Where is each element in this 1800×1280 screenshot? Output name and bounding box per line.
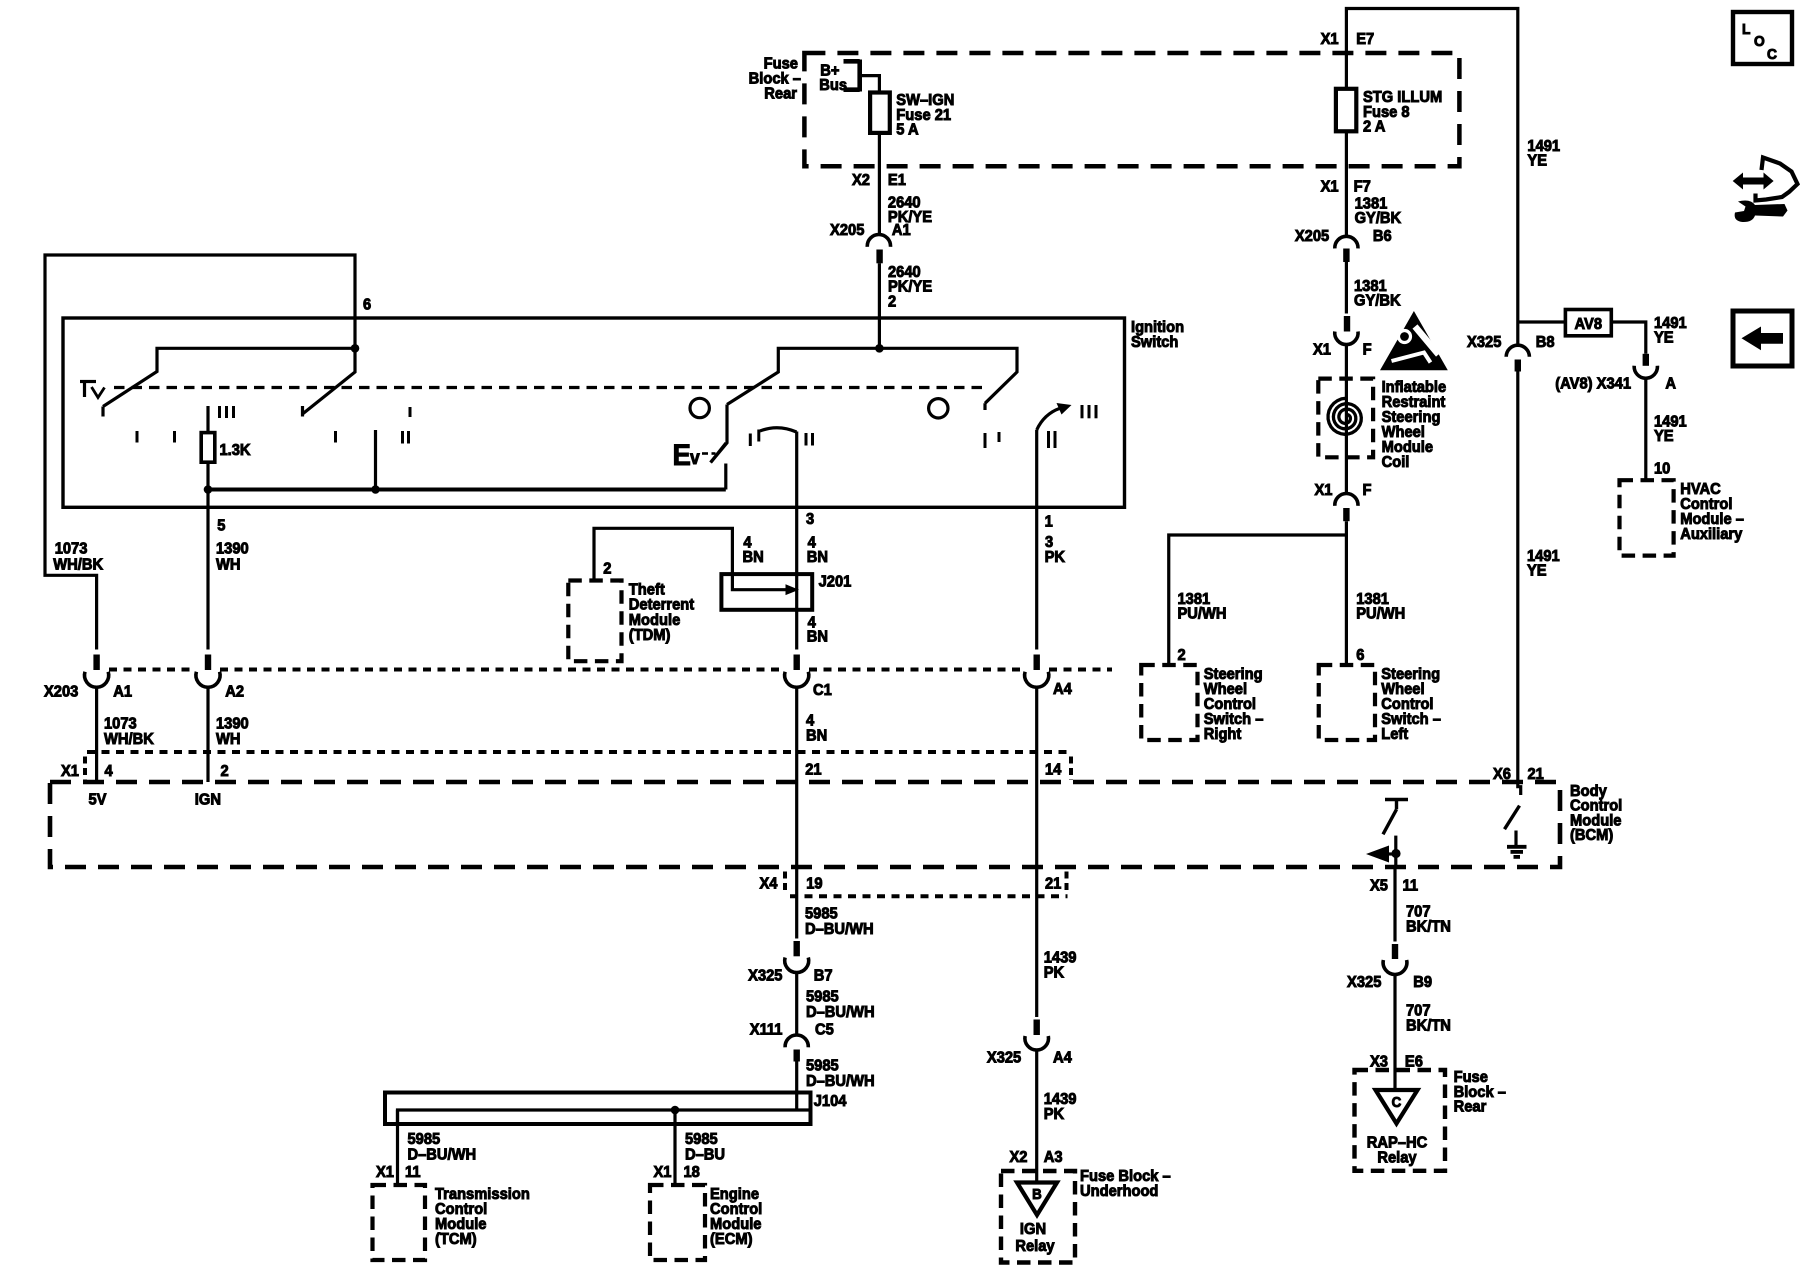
switch pole 3 (ignition feed) [711,348,1017,462]
wire branch to right switch [1169,535,1347,665]
svg-text:IGN: IGN [1020,1220,1046,1238]
label 2640 PK/YE A1 [888,194,932,239]
svg-text:2: 2 [1177,646,1185,664]
label Theft Deterrent Module (TDM) [629,581,694,645]
wire branch to AV8 [1518,320,1566,323]
label SW-IGN Fuse 21 5A [896,91,954,138]
svg-text:v: v [690,446,701,468]
fuse SW-IGN Fuse 21 5A [870,93,890,133]
wire X205 B6 to X1 F [1345,262,1348,314]
Fuse Block - Rear box (top) [804,53,1459,166]
svg-text:L: L [1742,22,1751,39]
label 1381 GY/BK (below X205) [1354,277,1401,309]
svg-text:X4: X4 [760,875,778,893]
ground symbol [1507,831,1527,857]
label 1390 WH (upper) [216,540,249,574]
svg-text:21: 21 [805,761,822,779]
connector X203 A1 [85,655,109,688]
junction ignition pin2 [875,344,884,353]
wire X341 to HVAC [1644,378,1647,480]
label X325 B8 [1467,333,1555,351]
wire A4 to IGN relay [1035,1050,1038,1183]
label HVAC Control Module - Auxiliary [1680,480,1744,543]
svg-text:B: B [1032,1185,1042,1202]
junction contact II bus [371,485,380,494]
Fuse Block - Rear box (bottom) [1355,1070,1446,1171]
label Steering Wheel Control Switch - Right [1204,665,1264,743]
svg-text:Bus: Bus [819,76,847,94]
svg-text:A1: A1 [113,683,132,701]
svg-text:Switch: Switch [1131,333,1178,351]
svg-text:(TDM): (TDM) [629,627,671,645]
contact arc pin 3 [759,428,797,442]
label 707 BK/TN (upper) [1406,903,1451,936]
svg-text:2 A: 2 A [1363,118,1385,136]
connector X325 B9 [1383,944,1407,975]
svg-text:X1: X1 [1313,341,1331,359]
svg-text:19: 19 [806,875,822,893]
svg-text:2: 2 [220,762,228,780]
svg-text:(TCM): (TCM) [435,1230,477,1248]
label X205 B6 [1295,227,1392,245]
label Fuse Block - Rear (bottom) [1454,1068,1507,1115]
label X1 F (above coil) [1313,341,1372,359]
svg-text:A1: A1 [892,222,911,240]
resistor 1.3K [201,406,215,490]
label X1 E7 [1321,31,1375,49]
svg-text:A: A [1665,375,1676,393]
wire J104 to ECM [673,1110,676,1185]
svg-text:PK: PK [1044,1105,1064,1123]
svg-text:D–BU/WH: D–BU/WH [805,920,874,938]
wire fuse 8 to X205 B6 [1345,131,1348,236]
wire A1 to BCM [95,687,98,782]
svg-text:E: E [673,439,691,472]
svg-text:X1: X1 [1315,481,1333,499]
icon LOC box [1733,12,1792,64]
label 4 BN (below C1) [806,712,827,745]
junction J104 ECM tap [671,1106,680,1115]
wire TDM branch [594,528,792,589]
svg-text:IGN: IGN [195,791,221,809]
BCM internal switch to X5 [1366,800,1408,868]
svg-text:Relay: Relay [1377,1149,1417,1167]
junction ignition pin6 [351,344,360,353]
label 1381 PU/WH (right switch) [1177,590,1226,622]
position ticks row2 left [137,431,175,443]
svg-text:21: 21 [1045,875,1062,893]
svg-text:Relay: Relay [1015,1237,1055,1255]
switch contact II wire [374,430,377,490]
label RAP-HC Relay [1367,1134,1427,1167]
svg-text:C1: C1 [813,681,832,699]
Body Control Module (BCM) box [50,782,1560,867]
svg-text:X325: X325 [987,1049,1022,1067]
wire B7 to X111 C5 [795,973,798,1037]
svg-text:X1: X1 [61,762,79,780]
label 1491 YE (to HVAC) [1654,413,1687,445]
connector X205 A1 [867,234,890,263]
label X3 E6 [1370,1053,1423,1071]
svg-text:Underhood: Underhood [1080,1182,1158,1200]
svg-text:PU/WH: PU/WH [1177,605,1226,623]
label X1 F (below coil) [1315,481,1372,499]
wire 21 to X325 A4 [1035,867,1038,1017]
label 4 BN (below J201) [807,614,828,646]
svg-text:D–BU/WH: D–BU/WH [407,1146,476,1164]
connector X203 A2 [196,655,220,688]
label 5985 D-BU/WH (TCM) [407,1130,476,1163]
switch blade 2 [303,348,356,416]
svg-text:BN: BN [807,628,828,646]
separator right (21) [1065,872,1069,894]
svg-text:BK/TN: BK/TN [1406,1017,1451,1035]
linkage dashed line [114,386,983,389]
connector X325 B8 [1506,345,1529,371]
wire X205 to ignition switch pin 2 [878,263,881,348]
svg-text:X203: X203 [44,683,78,701]
pivot circle 2 [929,399,948,418]
svg-text:5: 5 [217,517,226,535]
svg-text:5V: 5V [89,791,108,809]
svg-text:(BCM): (BCM) [1570,827,1613,845]
svg-text:3: 3 [806,510,814,528]
wire J104 to TCM [396,1110,399,1185]
svg-text:B7: B7 [814,967,833,985]
icon repair-info (double arrow and wrench) [1733,158,1798,223]
wire B8 to BCM X6 [1516,372,1519,783]
svg-text:PK: PK [1044,964,1064,982]
connector X205 B6 [1335,236,1358,262]
svg-text:X325: X325 [1467,333,1502,351]
position tick I (x750) [749,434,752,447]
label Transmission Control Module (TCM) [435,1185,530,1248]
svg-text:1.3K: 1.3K [220,441,251,459]
switch contact 1 blade [103,348,355,416]
label X4 19 [760,875,823,893]
Transmission Control Module (TCM) box [373,1185,426,1260]
label 1491 YE (to BCM) [1527,547,1560,579]
svg-text:WH/BK: WH/BK [53,556,103,574]
connector X1 F (above coil) [1335,316,1358,345]
label 2640 PK/YE 2 [888,263,932,310]
label X6 21 [1493,765,1544,783]
label 5985 D-BU/WH (X4) [805,905,874,938]
wire A4 to BCM [1035,687,1038,867]
wire 19 to X325 B7 [795,867,798,939]
svg-text:AV8: AV8 [1575,315,1603,333]
label 707 BK/TN (lower) [1406,1002,1451,1035]
wire top tie from STG fuse to 1491 YE [1346,9,1517,346]
svg-text:J104: J104 [814,1092,847,1110]
svg-text:YE: YE [1654,329,1674,347]
fuse STG ILLUM Fuse 8 2A [1336,89,1356,132]
key symbol Ev [673,439,716,472]
label X325 B7 [748,967,832,985]
label Fuse Block - Underhood [1080,1167,1171,1200]
wire ignition pin 3 to J201 and C1 [795,432,798,650]
wire fuse 21 to X205 [878,133,881,236]
svg-text:X205: X205 [830,222,865,240]
Engine Control Module (ECM) box [650,1185,705,1260]
svg-text:Rear: Rear [764,85,797,103]
wire pin 6 loop to X203 A1 [45,255,355,650]
label Body Control Module (BCM) [1570,782,1622,844]
svg-text:D–BU: D–BU [685,1146,725,1164]
BCM internal X6 to ground [1505,782,1521,829]
label IGN Relay [1015,1220,1055,1255]
wire ignition pin 5 to X203 A2 [206,490,209,650]
svg-text:14: 14 [1045,761,1062,779]
separator right (14) [1069,757,1073,781]
svg-text:BN: BN [743,548,764,566]
svg-text:Left: Left [1381,725,1408,743]
svg-text:X1: X1 [376,1163,394,1181]
position ticks III (left) [220,406,234,418]
svg-text:D–BU/WH: D–BU/WH [806,1003,875,1021]
resistor bus wire [208,488,726,492]
coil spiral [1328,398,1361,434]
svg-text:18: 18 [683,1163,700,1181]
svg-text:Rear: Rear [1454,1098,1487,1116]
svg-text:(ECM): (ECM) [710,1230,752,1248]
svg-text:F: F [1363,341,1372,359]
label 1073 WH/BK (upper) [53,540,103,574]
connector row X203 dashed line [109,668,1112,672]
label STG ILLUM Fuse 8 2A [1363,88,1442,135]
connector X203 A4 [1025,655,1049,688]
wire B9 to RAP-HC relay [1393,975,1396,1091]
svg-text:6: 6 [363,296,371,314]
label 4 BN (above J201 main) [807,534,828,566]
label B+ Bus [819,62,847,94]
relay triangle C (RAP-HC Relay) [1376,1090,1418,1124]
label X111 C5 [750,1021,834,1039]
label (AV8) X341 A [1555,375,1676,393]
svg-text:J201: J201 [819,573,852,591]
svg-text:GY/BK: GY/BK [1354,292,1401,310]
svg-text:X5: X5 [1370,877,1388,895]
label Ignition Switch [1131,318,1184,351]
svg-text:X1: X1 [1321,178,1339,196]
connector X111 C5 [785,1035,808,1062]
connector X341 A [1634,354,1657,378]
label X5 11 [1370,877,1418,895]
wire through coil [1345,345,1348,495]
key symbol (left) [80,382,105,398]
svg-text:E7: E7 [1356,31,1374,49]
svg-text:X205: X205 [1295,227,1330,245]
wire AV8 to X341 [1611,322,1646,354]
connector X203 C1 [785,655,809,688]
label X1 11 [376,1163,421,1181]
Inflatable Restraint Steering Wheel Module Coil box [1318,379,1373,458]
Steering Wheel Control Switch - Right box [1141,665,1197,740]
svg-text:B9: B9 [1413,973,1432,991]
label 4 BN (TDM branch) [743,534,764,566]
label 1439 PK (above A4) [1044,949,1077,982]
svg-text:X1: X1 [654,1163,672,1181]
position ticks II [403,431,409,444]
connector X1 F (below coil) [1335,493,1358,521]
svg-text:A2: A2 [225,683,244,701]
splice pack J104 [385,1093,811,1125]
svg-text:1: 1 [1045,513,1054,531]
svg-text:A4: A4 [1053,680,1072,698]
svg-text:2: 2 [888,293,896,311]
label Inflatable Restraint Steering Wheel Module Coil [1382,378,1447,471]
svg-text:PU/WH: PU/WH [1356,605,1405,623]
svg-text:BK/TN: BK/TN [1406,918,1451,936]
splice J201 [721,574,812,610]
Ignition Switch box [63,318,1125,507]
svg-text:YE: YE [1527,562,1547,580]
svg-text:F: F [1363,481,1372,499]
Theft Deterrent Module box [568,581,621,662]
svg-text:X2: X2 [1010,1148,1028,1166]
pivot circle 1 [690,398,709,417]
svg-text:A4: A4 [1053,1049,1072,1067]
icon SIR warning triangle [1380,311,1448,370]
wire A2 to BCM [206,687,209,782]
svg-text:WH: WH [216,730,241,748]
svg-text:A3: A3 [1044,1148,1063,1166]
svg-text:BN: BN [807,548,828,566]
X4 connector dashed line [790,894,1068,898]
junction J201 tap [786,584,800,595]
label Engine Control Module (ECM) [710,1185,762,1248]
svg-text:2: 2 [603,560,611,578]
svg-text:Right: Right [1204,725,1242,743]
connector X325 B7 [785,941,809,973]
label X325 A4 (lower) [987,1049,1072,1067]
svg-text:X111: X111 [750,1021,783,1039]
svg-text:WH/BK: WH/BK [104,730,154,748]
position tick I (x335) [334,431,337,443]
label 1491 YE (at AV8) [1654,314,1687,346]
svg-text:O: O [1754,34,1765,51]
label 5985 D-BU (ECM) [685,1130,725,1163]
label X1 18 [654,1163,701,1181]
wire C5 to J104 [795,1062,798,1111]
relay triangle B (IGN Relay) [1017,1183,1057,1216]
B+ Bus bar [844,60,860,92]
label X1 F7 [1321,178,1371,196]
svg-text:X325: X325 [748,967,783,985]
svg-text:C: C [1392,1093,1402,1110]
label 1381 PU/WH (left switch) [1356,590,1405,622]
label X325 B9 [1347,973,1432,991]
svg-text:B6: B6 [1373,227,1392,245]
position ticks III (x1082) [1082,405,1096,418]
connector X325 A4 [1025,1020,1049,1051]
Fuse Block - Underhood box [1001,1171,1075,1263]
svg-text:WH: WH [216,556,241,574]
wire C1 to BCM [795,687,798,867]
label 1381 GY/BK (above X205) [1355,195,1402,227]
wire coil to steering wheel switches [1345,521,1348,665]
label 1390 WH (lower) [216,715,249,748]
BCM X1 connector dashed line [87,750,1070,754]
wire X5 to B9 [1393,867,1396,942]
Ev switch blade [711,443,726,463]
position ticks II (x806) [806,433,813,446]
position tick I [409,407,412,417]
junction resistor bus [204,485,213,494]
AV8 box [1565,310,1611,336]
label Fuse Block - Rear (top) [749,55,802,103]
wire ignition pin 1 to A4 [1035,430,1038,650]
svg-text:X2: X2 [852,172,870,190]
svg-text:(AV8) X341: (AV8) X341 [1555,375,1631,393]
svg-text:6: 6 [1356,646,1364,664]
HVAC Control Module - Auxiliary box [1620,480,1674,555]
wire B+ Bus to fuse 21 [860,76,880,93]
X4 separator [783,872,787,894]
svg-text:E1: E1 [888,172,906,190]
label 1073 WH/BK (lower) [104,715,154,748]
svg-text:5 A: 5 A [896,121,918,139]
svg-text:BN: BN [806,727,827,745]
svg-text:F7: F7 [1354,178,1371,196]
X1 separator [83,757,87,781]
position ticks II (x1048) [1049,431,1056,448]
label 5985 D-BU/WH (B7) [806,988,875,1021]
svg-text:GY/BK: GY/BK [1355,209,1402,227]
position ticks I I (x985) [985,432,999,448]
svg-text:C: C [1767,47,1778,64]
svg-text:X1: X1 [1321,31,1339,49]
label 1439 PK (below A4) [1044,1090,1077,1123]
icon back-arrow box [1733,311,1792,366]
svg-text:PK: PK [1045,548,1065,566]
label X2 A3 [1010,1148,1063,1166]
Steering Wheel Control Switch - Left box [1319,665,1375,740]
svg-text:X325: X325 [1347,973,1382,991]
Ev switch terminal [724,464,727,490]
label Steering Wheel Control Switch - Left [1381,665,1441,743]
label X2 E1 [852,172,906,190]
svg-text:B8: B8 [1536,333,1555,351]
svg-text:4: 4 [105,762,114,780]
label 3 PK [1045,533,1065,566]
label 5985 D-BU/WH (C5) [806,1057,875,1090]
svg-text:D–BU/WH: D–BU/WH [806,1072,875,1090]
svg-text:YE: YE [1527,152,1547,170]
svg-text:Coil: Coil [1382,453,1410,471]
svg-text:11: 11 [405,1163,421,1181]
svg-text:C5: C5 [815,1021,834,1039]
svg-text:Auxiliary: Auxiliary [1680,525,1743,543]
svg-text:11: 11 [1403,877,1419,895]
svg-text:YE: YE [1654,427,1674,445]
svg-text:10: 10 [1654,460,1670,478]
label 1491 YE (top right) [1527,137,1560,169]
contact arc pin 1 with arrow [1037,403,1072,430]
